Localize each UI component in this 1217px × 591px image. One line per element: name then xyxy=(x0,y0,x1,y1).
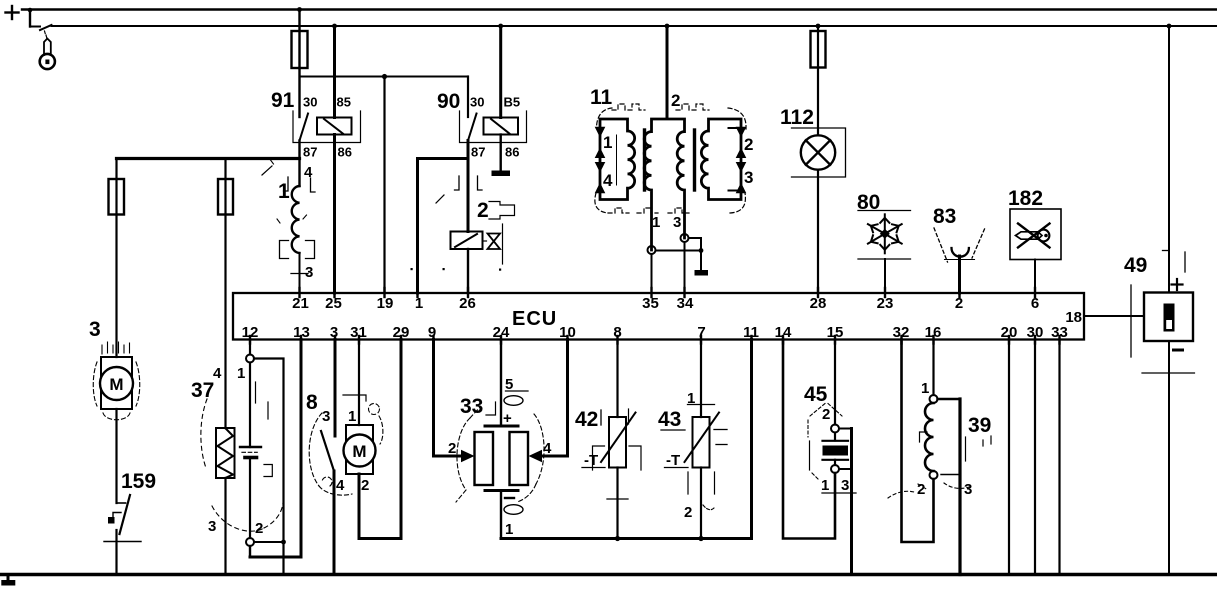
svg-text:+: + xyxy=(503,410,512,427)
stray dash near relay 90 xyxy=(436,195,444,203)
connector tick below 45 xyxy=(822,492,856,494)
connector line on pin 18 wire xyxy=(1130,285,1132,357)
svg-text:34: 34 xyxy=(677,295,694,312)
dashed outline of pump xyxy=(93,362,140,420)
dashes near coil 1 xyxy=(271,160,307,223)
fuse (lambda heater) xyxy=(218,159,233,215)
wire ECU pin 33 to ground bus xyxy=(1058,340,1060,575)
wire terminal 2 to return loop xyxy=(249,546,251,557)
actuator 33 bottom bar xyxy=(485,489,518,492)
top line of 80 xyxy=(858,210,911,212)
wire injector 2 to ECU pin 26 xyxy=(467,249,469,293)
wire ECU pin 1 to relay 90 pin 87 xyxy=(418,159,469,294)
terminal circle 2 of 45 xyxy=(831,425,839,433)
coil 11 center winding with legs xyxy=(644,119,684,250)
top supply bus (+) xyxy=(22,8,1217,10)
svg-text:3: 3 xyxy=(208,518,216,535)
svg-text:2: 2 xyxy=(448,440,456,457)
svg-text:83: 83 xyxy=(933,205,956,228)
svg-text:112: 112 xyxy=(780,106,814,129)
wire lamp to ECU pin 28 xyxy=(817,170,819,293)
dashed funnel of 83 xyxy=(934,228,985,262)
wire switch pin 4 to ground bus xyxy=(333,471,336,575)
wire ECU pin 30 to ground bus xyxy=(1034,340,1036,575)
lambda cell (battery symbol) xyxy=(240,447,261,458)
injector 2 body xyxy=(451,232,483,250)
terminal circle 1 of 39 xyxy=(930,395,938,403)
wire 182 to ECU pin 6 xyxy=(1034,260,1036,294)
return loop to ECU pin 13 xyxy=(250,340,301,558)
ECU top pin stubs xyxy=(300,288,1036,297)
wire circle 1 to cell xyxy=(249,363,251,448)
branch terminal 2 to ground line xyxy=(254,541,284,543)
leader bracket of 33 xyxy=(486,402,496,415)
wire pump to inertia switch 159 xyxy=(115,409,117,503)
wire ECU pin 7 to thermistor 43 xyxy=(700,340,702,418)
bracket left of 39 winding xyxy=(920,432,928,442)
relay 90 switch contact 30-87 xyxy=(468,114,477,141)
junction on + bus at fuse column xyxy=(297,7,302,12)
actuator 33 right winding xyxy=(510,432,529,485)
feed line fuse node to relay 90 pin 30 xyxy=(300,76,469,78)
ground branch from coil terminals xyxy=(656,238,702,270)
lamp 112 bracket frame xyxy=(792,128,846,177)
sensor 39 winding xyxy=(925,403,934,471)
wire motor 8 pin 2 to ECU pin 29 xyxy=(359,340,401,539)
pump motor 3 rotor xyxy=(100,367,133,400)
pump motor 3 body xyxy=(101,357,132,409)
inertia switch 159 arm xyxy=(120,495,131,534)
wire ECU pin 31 to motor 8 pin 1 xyxy=(358,340,360,426)
lambda terminal circle 1 xyxy=(246,355,254,363)
wire relay 91 pin 86 to ECU pin 25 xyxy=(333,135,336,294)
core bar left xyxy=(643,130,646,190)
dashed outline of 33 xyxy=(456,407,544,502)
thermistor 43 body xyxy=(693,417,710,468)
svg-text:3: 3 xyxy=(305,264,313,281)
svg-text:2: 2 xyxy=(684,504,692,521)
brackets below 43 xyxy=(688,472,715,494)
dashed cap above pump motor xyxy=(102,342,130,354)
svg-text:ECU: ECU xyxy=(512,308,557,330)
wire switched bus to relay 90 pin 85 xyxy=(498,24,503,118)
thermistor 42 body xyxy=(609,417,626,468)
junction dot on ground branch xyxy=(281,540,286,545)
svg-text:26: 26 xyxy=(459,295,476,312)
dashes right of 39 xyxy=(966,437,984,461)
wire terminal 1 to ECU pin 14 xyxy=(783,340,835,539)
wire ECU pin 32 to terminal 2 xyxy=(902,340,934,543)
svg-text:85: 85 xyxy=(337,95,351,110)
bracket right of cell xyxy=(264,465,272,477)
leader of label 8 xyxy=(343,395,366,401)
connector ellipse top of 33 xyxy=(504,396,523,406)
component 1 solenoid winding xyxy=(292,186,300,253)
thermistor 43 diagonal xyxy=(685,413,720,463)
core bar right xyxy=(693,130,696,190)
svg-text:2: 2 xyxy=(361,477,369,494)
junction to ECU pin 19 xyxy=(382,74,387,79)
bottom line of 80 xyxy=(858,258,911,260)
wire switched bus to relay 91 pin 85 xyxy=(332,24,337,118)
lambda heater resistor box xyxy=(216,428,235,478)
connector ellipse bottom of 33 xyxy=(504,505,523,515)
wire fuse to lamp 112 xyxy=(817,68,819,137)
plus label of 49 xyxy=(1172,279,1183,290)
svg-text:37: 37 xyxy=(191,379,214,402)
coil 11 primary-left winding (pins 1-4) xyxy=(600,119,635,200)
svg-text:21: 21 xyxy=(292,295,309,312)
svg-text:30: 30 xyxy=(470,95,484,110)
svg-text:1: 1 xyxy=(652,214,660,231)
svg-text:25: 25 xyxy=(325,295,342,312)
connector line right of injector xyxy=(483,224,503,264)
ground bus (bottom) xyxy=(0,573,1217,576)
coil 11 dashed case outline xyxy=(595,104,746,213)
ground symbol right of coil 11 xyxy=(695,270,709,276)
svg-text:91: 91 xyxy=(271,89,295,112)
svg-text:45: 45 xyxy=(804,383,828,406)
inertia switch 159 contact foot xyxy=(117,502,126,504)
arrow into right winding xyxy=(529,450,543,462)
svg-text:35: 35 xyxy=(642,295,659,312)
motor 8 body xyxy=(346,425,373,474)
wire coil pin 1 to ECU pin 35 xyxy=(651,254,653,293)
dashes right of 43 xyxy=(714,430,727,445)
wire relay 90 pin 87 to injector 2 xyxy=(467,141,470,232)
stray dash near relay 91 xyxy=(262,166,272,175)
ignition switch S xyxy=(30,25,52,30)
motor 8 rotor xyxy=(344,435,376,467)
dashed outline of 45 xyxy=(808,404,842,480)
connector brackets below relay 90 xyxy=(455,176,483,190)
svg-text:159: 159 xyxy=(121,470,156,493)
svg-text:1: 1 xyxy=(921,380,929,397)
cup symbol of 83 xyxy=(952,248,969,257)
wire coil pin 3 to ECU pin 34 xyxy=(684,242,686,293)
dashed arcs below 39 xyxy=(888,483,972,498)
wire ECU pin 20 to ground bus xyxy=(1008,340,1010,575)
fuse (warning lamp) xyxy=(811,31,826,68)
actuator 33 left winding xyxy=(475,432,494,485)
lamp 112 bulb xyxy=(801,135,835,169)
tick under label 1 xyxy=(688,404,715,406)
wire 83 to ECU pin 2 xyxy=(958,256,961,293)
svg-text:2: 2 xyxy=(255,520,263,537)
wire bus to fuse xyxy=(817,26,819,68)
svg-text:3: 3 xyxy=(964,481,972,498)
battery plate tick below 49 xyxy=(1142,372,1195,374)
svg-text:-T: -T xyxy=(666,452,680,469)
bracket right of label 39 xyxy=(990,436,992,444)
svg-text:3: 3 xyxy=(673,214,681,231)
underline of 43 xyxy=(661,429,685,431)
svg-text:4: 4 xyxy=(603,171,613,190)
relay 90 coil box xyxy=(484,118,519,135)
fused feed line to pumps (thick) xyxy=(117,157,300,160)
svg-text:4: 4 xyxy=(336,477,345,494)
junction bus to lamp fuse xyxy=(816,24,821,29)
svg-text:3: 3 xyxy=(89,318,101,341)
svg-text:2: 2 xyxy=(671,91,680,110)
switched supply bus xyxy=(52,25,1217,27)
thermistor 42 diagonal xyxy=(601,413,636,463)
wire ECU pin 3 to switch contact xyxy=(334,340,337,437)
svg-text:28: 28 xyxy=(810,295,827,312)
junction switched bus to coil 11 feed xyxy=(665,24,670,29)
svg-text:87: 87 xyxy=(303,145,317,160)
coil 11 secondary-right winding (pins 2-3) xyxy=(701,119,741,200)
wire feed to relay 90 contact xyxy=(467,77,469,118)
lambda terminal circle 2 xyxy=(246,538,254,546)
wire module 49 to ground bus xyxy=(1168,341,1170,575)
underline of -T 43 xyxy=(665,467,689,469)
arrows on winding 1-4 xyxy=(595,127,606,193)
terminal circle 1 of 45 xyxy=(831,465,839,473)
relay 91 coil box xyxy=(317,118,352,135)
wire 159 to ground bus xyxy=(115,530,117,575)
wire ECU pin 10 to pin 4 arrow xyxy=(541,340,568,457)
fuse (main) xyxy=(292,31,308,68)
minus marks on secondary xyxy=(729,128,738,191)
svg-text:4: 4 xyxy=(304,164,313,181)
reset line of 159 xyxy=(104,541,141,543)
junction dot 43 on common line xyxy=(698,536,703,541)
wire fuse to relay 91 pin 30 xyxy=(298,68,300,117)
junction dot on ground branch xyxy=(699,248,704,253)
brackets around 42 xyxy=(593,446,642,470)
wire component 1 pin 3 to ECU pin 21 xyxy=(299,253,301,293)
svg-text:1: 1 xyxy=(278,180,290,203)
connector tick on wire to pin 21 xyxy=(291,273,308,275)
relay 91 switch contact 30-87 xyxy=(300,114,309,141)
svg-text:1: 1 xyxy=(348,408,356,425)
svg-text:B5: B5 xyxy=(504,95,521,110)
dashed hook below 43 xyxy=(703,505,714,510)
wire + bus to fuse xyxy=(298,10,300,69)
tick right of label 42 xyxy=(600,410,602,425)
key symbol xyxy=(40,31,55,69)
wire junction to ECU pin 19 xyxy=(383,77,385,294)
tick terminal 2 to shield xyxy=(941,474,958,476)
svg-text:2: 2 xyxy=(955,295,963,312)
branch terminal 1 to ground line xyxy=(254,359,284,575)
svg-text:4: 4 xyxy=(213,365,222,382)
stray dots near injector 2 xyxy=(411,268,502,271)
underline of -T 42 xyxy=(582,467,605,469)
wire ECU pin 12 to lambda cell xyxy=(249,340,251,355)
wire cell to terminal 2 xyxy=(249,458,251,538)
actuator 33 top bar xyxy=(485,425,518,428)
minus label of 33 xyxy=(505,497,514,499)
knock sensor 45 piezo element xyxy=(823,433,849,466)
heater zigzag xyxy=(218,428,234,478)
wire relay 90 pin 86 to ground xyxy=(500,135,502,171)
connector tick on 42 lower wire xyxy=(607,498,628,500)
svg-text:42: 42 xyxy=(575,408,598,431)
snowflake symbol 80 xyxy=(868,214,902,253)
ECU top pin labels xyxy=(292,295,1039,312)
shield branches of 45 xyxy=(839,429,852,470)
svg-text:86: 86 xyxy=(505,145,519,160)
svg-text:-T: -T xyxy=(584,452,598,469)
leader bracket of label 2 xyxy=(489,202,515,220)
minus label of 49 xyxy=(1174,349,1183,352)
svg-text:1: 1 xyxy=(603,133,612,152)
shield branch of 39 xyxy=(938,398,961,400)
module 49 inner bar xyxy=(1164,304,1175,332)
tick under label 5 xyxy=(506,390,529,392)
common sensor return line to ECU pin 11 xyxy=(501,340,752,539)
svg-text:1: 1 xyxy=(821,477,829,494)
arrow into left winding xyxy=(461,450,475,462)
dashed outline of 8 xyxy=(309,404,383,496)
ground symbol under relay 90 xyxy=(492,171,511,177)
fuse (fuel pump) xyxy=(109,159,125,215)
wire ECU pin 15 to knock sensor 45 xyxy=(834,340,836,425)
wire thermistor 43 to common line xyxy=(700,468,702,539)
thin line inside left winding xyxy=(616,135,618,185)
svg-text:43: 43 xyxy=(658,408,681,431)
shield wire of 45 to ground bus xyxy=(850,429,853,575)
relay 91 outline xyxy=(293,111,361,143)
shield wire of 39 to ground bus xyxy=(958,399,961,575)
wire bus to coil 11 pin 2 xyxy=(666,26,669,118)
svg-text:87: 87 xyxy=(471,145,485,160)
tick marks on wire above 49 xyxy=(1163,251,1186,273)
wire relay 91 pin 87 down xyxy=(298,141,300,187)
wire ECU pin 18 to module 49 xyxy=(1084,315,1144,317)
connector brackets below relay 91 xyxy=(284,177,316,192)
svg-text:3: 3 xyxy=(322,408,330,425)
line under 83 xyxy=(945,259,975,261)
junction bus to module 49 xyxy=(1167,24,1172,29)
svg-text:182: 182 xyxy=(1008,187,1043,210)
wire ECU pin 24 to actuator 33 pin 5 xyxy=(500,340,502,426)
wire ECU pin 8 to thermistor 42 xyxy=(616,340,618,418)
svg-text:39: 39 xyxy=(968,414,991,437)
svg-text:3: 3 xyxy=(744,168,753,187)
injector 2 valve symbol xyxy=(488,234,501,250)
svg-text:23: 23 xyxy=(877,295,894,312)
svg-text:30: 30 xyxy=(303,95,317,110)
svg-text:11: 11 xyxy=(590,86,613,109)
svg-text:8: 8 xyxy=(306,391,318,414)
core brackets of component 1 xyxy=(280,241,315,259)
svg-text:19: 19 xyxy=(377,295,394,312)
connector terminal circle pin 3 xyxy=(681,234,689,242)
wire ECU pin 16 to sensor 39 pin 1 xyxy=(932,340,934,396)
wire actuator 33 pin 1 to common line xyxy=(500,491,502,539)
wire ECU pin 9 to pin 2 arrow xyxy=(434,340,463,457)
ground symbol bottom-left xyxy=(1,576,15,586)
connector terminal circle pin 1 xyxy=(648,246,656,254)
connector dash lower xyxy=(267,402,269,419)
svg-text:1: 1 xyxy=(505,521,513,538)
switch arm of 8 xyxy=(321,431,334,471)
arrows on winding 2-3 xyxy=(736,127,747,193)
wire fuse to heater of 37 xyxy=(224,215,226,429)
svg-text:2: 2 xyxy=(477,199,489,222)
wire fuse to pump motor 3 xyxy=(115,215,117,358)
crossed key icon of 182 xyxy=(1018,224,1050,248)
ECU box xyxy=(233,293,1084,340)
svg-text:1: 1 xyxy=(415,295,423,312)
svg-text:M: M xyxy=(352,442,366,461)
connector dash right of cell xyxy=(255,382,257,403)
svg-text:18: 18 xyxy=(1065,309,1082,326)
junction dot 42 on common line xyxy=(615,536,620,541)
svg-text:1: 1 xyxy=(237,365,245,382)
relay 90 outline xyxy=(460,111,527,143)
svg-text:6: 6 xyxy=(1031,295,1039,312)
module 49 box xyxy=(1144,293,1193,342)
svg-text:90: 90 xyxy=(437,90,460,113)
battery plus terminal xyxy=(6,6,19,19)
svg-text:49: 49 xyxy=(1124,254,1147,277)
box of 182 xyxy=(1010,209,1061,260)
svg-text:2: 2 xyxy=(822,406,830,423)
ECU bottom pin labels xyxy=(242,324,1068,341)
svg-text:M: M xyxy=(109,375,123,394)
terminal circle 2 of 39 xyxy=(930,471,938,479)
wire heater to ground bus xyxy=(224,478,226,575)
wire from + bus to ignition switch xyxy=(28,8,33,27)
svg-text:3: 3 xyxy=(841,477,849,494)
dashed outline of 37 xyxy=(201,399,283,531)
inertia switch 159 trigger mass xyxy=(113,513,121,518)
ECU bottom pin stubs xyxy=(250,336,1060,344)
svg-text:86: 86 xyxy=(338,145,352,160)
wire 80 to ECU pin 23 xyxy=(884,259,886,293)
wire switched bus down to module 49 xyxy=(1168,26,1170,293)
svg-text:2: 2 xyxy=(744,135,753,154)
wire thermistor 42 to common line xyxy=(616,468,618,539)
tick above 42 right xyxy=(628,409,630,424)
